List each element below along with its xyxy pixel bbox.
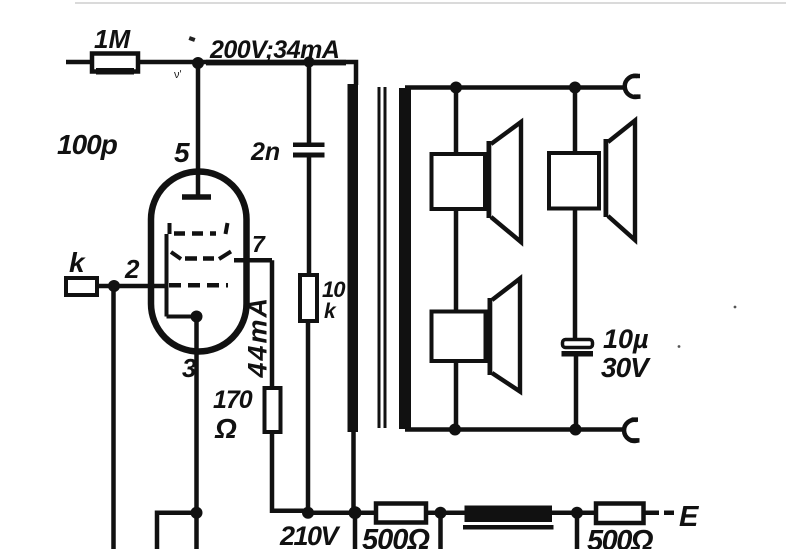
label k (cut resistor value) (69, 247, 86, 278)
node choke left (435, 507, 447, 519)
wire 500ohm to choke node (426, 510, 465, 515)
node top right speaker column (569, 82, 581, 94)
wire node down left of choke (438, 513, 443, 549)
tube cathode (167, 311, 203, 323)
wire cathode return step (157, 513, 197, 549)
svg-text:10µ: 10µ (603, 324, 649, 354)
label 2n (250, 138, 280, 166)
wire 210V to primary bottom (308, 510, 355, 515)
scan speck right 1 (734, 306, 737, 309)
svg-text:νʹ: νʹ (174, 69, 182, 81)
svg-text:210V: 210V (279, 521, 341, 549)
transformer T1 core (378, 87, 387, 428)
svg-text:100p: 100p (57, 129, 118, 160)
label 500ohm left (362, 524, 430, 549)
wire node down left rail (111, 286, 116, 549)
label E (679, 501, 700, 533)
resistor grid-leak (cut at left edge) (66, 278, 97, 295)
wire primary bottom lead (354, 430, 356, 549)
wire pin 2 grid lead (114, 284, 168, 289)
tube grid g3 (dashed, tied to cathode) (167, 223, 228, 317)
svg-text:200V;34mA: 200V;34mA (209, 36, 339, 64)
label pin 3 (182, 353, 197, 383)
node cathode bottom junction (191, 507, 203, 519)
node bottom right speaker column (570, 424, 582, 436)
speaker LS3 top right (549, 121, 635, 241)
wire grid resistor to node (97, 284, 114, 289)
label 10 (322, 277, 346, 302)
svg-text:44mA: 44mA (243, 296, 273, 379)
capacitor C 2n (293, 143, 325, 158)
label 200V;34mA (209, 36, 339, 64)
terminal C bottom (624, 420, 639, 441)
svg-text:30V: 30V (601, 352, 651, 383)
wire 2n to 10k (307, 157, 312, 276)
tube anode plate (182, 194, 211, 200)
wire 210V rail to 500ohm (355, 510, 376, 515)
svg-text:Ω: Ω (214, 413, 237, 444)
speaker LS2 bottom left (432, 279, 521, 392)
label pin 7 (252, 231, 266, 257)
wire 10k to 210V node (306, 321, 311, 513)
svg-text:500Ω: 500Ω (362, 524, 430, 549)
speaker LS1 top left (432, 122, 522, 242)
transformer T1 primary winding (348, 84, 359, 432)
wire secondary top rail (405, 85, 627, 90)
node grid junction (108, 280, 120, 292)
svg-text:2n: 2n (250, 138, 280, 166)
wire 1M to B+ rail and down to transformer primary (138, 60, 356, 85)
label 10u (603, 324, 649, 354)
node primary/210V junction (349, 506, 362, 519)
svg-text:1M: 1M (94, 24, 131, 54)
tube grid g1 (control, dashed) (169, 283, 228, 288)
wire pin 7 down to 170ohm (270, 260, 275, 389)
node choke right (571, 507, 583, 519)
transformer T1 secondary winding (399, 88, 411, 429)
tube grid g2 (screen, dashed) to pin 7 (171, 252, 272, 261)
resistor 170ohm (265, 388, 281, 432)
svg-text:2: 2 (124, 254, 140, 284)
resistor 10k (300, 275, 317, 321)
svg-text:E: E (679, 501, 700, 533)
wire left speaker column (454, 88, 459, 431)
scan speck right 2 (678, 345, 681, 348)
svg-text:k: k (69, 247, 86, 278)
label 500ohm right (587, 525, 654, 549)
scan speck apostrophe (188, 36, 195, 42)
wire 170ohm to 210V rail (272, 432, 310, 511)
capacitor 10u 30V electrolytic (562, 340, 594, 357)
label 210V (279, 521, 341, 549)
wire input to R 1M (66, 60, 93, 65)
label 00p (cut capacitor value) (57, 129, 118, 160)
label 30V (601, 352, 651, 383)
wire pin 3 cathode lead (194, 317, 199, 514)
inductor choke winding (465, 506, 553, 523)
node 210V junction (302, 507, 314, 519)
inductor choke core line (463, 525, 554, 530)
svg-text:7: 7 (252, 231, 266, 257)
wire 500ohm to E (644, 510, 675, 515)
scan artifact top line (75, 2, 786, 4)
wire right speaker column upper (573, 88, 578, 340)
node junction 2n/rail (304, 57, 315, 68)
label ohm (214, 413, 237, 444)
label 44mA (rotated) (243, 296, 273, 379)
wire secondary bottom rail (405, 427, 626, 432)
wire rail to capacitor 2n (307, 62, 312, 143)
wire 10u to bottom rail (574, 356, 579, 430)
svg-text:170: 170 (213, 386, 253, 414)
tube V1 envelope (151, 172, 247, 352)
label 1M (94, 24, 131, 54)
label 170 (213, 386, 253, 414)
node junction pin5/rail (192, 57, 204, 69)
svg-text:k: k (324, 300, 337, 323)
wire pin 5 lead (196, 63, 201, 195)
wire choke to node (552, 510, 596, 515)
label pin 2 (124, 254, 140, 284)
svg-text:3: 3 (182, 353, 197, 383)
resistor 500ohm left (376, 504, 426, 523)
svg-text:5: 5 (174, 137, 190, 168)
node top left speaker column (450, 82, 462, 94)
scan speck n-mark (174, 69, 182, 81)
svg-text:10: 10 (322, 277, 346, 302)
resistor 1M (92, 54, 138, 75)
label pin 5 (174, 137, 190, 168)
wire node down right of choke (575, 513, 580, 549)
resistor 500ohm right (596, 504, 644, 524)
node bottom left speaker column (449, 424, 461, 436)
svg-text:500Ω: 500Ω (587, 525, 654, 549)
label k (324, 300, 337, 323)
terminal C top (625, 76, 641, 97)
